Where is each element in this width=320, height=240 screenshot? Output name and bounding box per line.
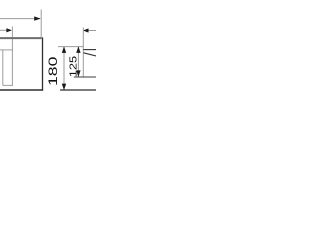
arrowhead D2 left, pointing right xyxy=(6,28,11,32)
side view wedge slanted bottom edge xyxy=(84,53,97,56)
extension line at x=12.4 xyxy=(11,27,13,51)
inner panel top line (y=49.9) xyxy=(0,49,13,51)
dimension 180 stem (x=64) xyxy=(63,47,65,90)
arrowhead 125 up xyxy=(76,46,80,53)
front view right edge (dark, x=42.5) xyxy=(42,37,44,90)
top reference line for vertical dims (y=46.6) xyxy=(58,46,83,48)
inner panel right edge (x=12.4) xyxy=(11,50,13,85)
dimension line D2 right segment (y=30.5) xyxy=(88,30,96,32)
arrowhead 180 up xyxy=(62,46,66,53)
extension line at x=41.2 xyxy=(40,10,42,38)
arrowhead 125 down xyxy=(76,70,80,77)
dimension line D2 left (y=30.3) xyxy=(0,29,11,31)
dimension line D1 (top, y=18.6) xyxy=(0,18,40,20)
svg-text:125: 125 xyxy=(68,56,78,77)
bottom reference line for 125 (y=77) xyxy=(74,76,96,78)
wall line (thick gray, y=38.1) xyxy=(0,37,42,39)
arrowhead D2 right, pointing left xyxy=(83,28,89,32)
side view wedge top edge (y=49.6) xyxy=(83,49,96,51)
background xyxy=(0,0,96,96)
inner panel bottom edge (y=85.4) xyxy=(3,84,13,86)
front view bottom edge (dark, y=90) xyxy=(0,89,43,91)
arrowhead 180 down xyxy=(62,84,66,91)
bottom reference line for 180 (y=90) xyxy=(60,89,96,91)
extension line at x=83.3 xyxy=(82,28,84,77)
inner panel left edge (x=2.8) xyxy=(2,50,4,86)
dimension 125 stem (x=78.4) xyxy=(77,47,79,77)
svg-text:180: 180 xyxy=(47,57,60,86)
arrowhead D1 right xyxy=(34,16,41,20)
